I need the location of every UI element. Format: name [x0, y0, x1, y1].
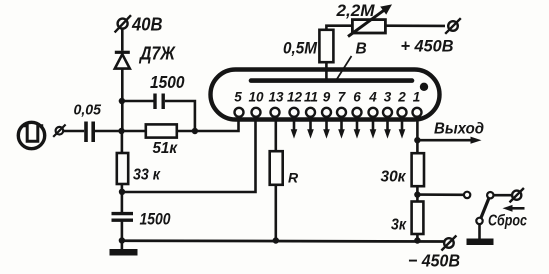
svg-text:51к: 51к — [153, 140, 178, 157]
wire 0,5M to anode — [325, 62, 328, 80]
capacitor C1 0,05 — [86, 122, 93, 143]
pin number labels — [234, 90, 420, 105]
cathode arrow pin 9 — [323, 117, 330, 139]
wire C1 to node A — [94, 130, 121, 133]
svg-text:30к: 30к — [381, 168, 407, 185]
wire node B to C2 — [122, 100, 154, 103]
svg-text:1500: 1500 — [140, 210, 171, 229]
wire input to C1 — [64, 130, 84, 133]
pin 7 — [337, 108, 346, 117]
svg-text:R: R — [288, 170, 299, 186]
wire 51k to node C — [177, 130, 195, 133]
svg-text:2,2М: 2,2М — [335, 1, 375, 20]
resistor R — [270, 151, 283, 185]
wire switch to terminal — [494, 194, 512, 197]
svg-text:В: В — [356, 41, 367, 58]
node D junction — [119, 189, 125, 195]
cathode arrow pin 11 — [307, 117, 314, 139]
resistor 30k — [412, 153, 424, 186]
svg-text:6: 6 — [353, 90, 361, 105]
pin 1 — [413, 108, 422, 117]
resistor 0,5M — [319, 30, 333, 62]
pin 9 — [322, 108, 331, 117]
diode VD1 D7Zh — [115, 52, 130, 68]
cathode arrow pin 7 — [338, 117, 345, 139]
anode bar — [251, 78, 412, 83]
cathode arrow pin 6 — [354, 117, 361, 139]
wire terminal to diode — [121, 28, 124, 51]
capacitor C2 1500 — [155, 94, 163, 110]
node F junction — [273, 237, 279, 243]
switch Sbros pivot circle — [487, 192, 493, 198]
wire node D to pin 10 — [122, 116, 256, 193]
cathode arrow pin 12 — [291, 117, 298, 139]
ground — [110, 241, 138, 253]
terminal input — [53, 125, 65, 137]
terminal +450V — [445, 18, 461, 34]
output arrow — [417, 137, 481, 144]
terminal Sbros — [510, 188, 524, 202]
svg-text:40В: 40В — [131, 14, 162, 35]
svg-text:Выход: Выход — [434, 121, 484, 138]
svg-text:0,5М: 0,5М — [283, 39, 318, 58]
svg-text:1: 1 — [413, 90, 421, 105]
pin 5 — [235, 108, 244, 117]
svg-text:+ 450В: + 450В — [401, 37, 454, 56]
switch ground stub — [478, 224, 481, 239]
resistor 3k — [412, 202, 424, 235]
cathode arrow pin 3 — [384, 117, 391, 139]
node E junction — [119, 237, 125, 243]
wire 30k to 3k — [416, 186, 419, 201]
svg-text:3к: 3к — [391, 216, 407, 233]
wire 0,5M top — [326, 26, 352, 30]
dekatron tube V1 envelope — [211, 70, 440, 120]
wire R to bus — [274, 185, 277, 241]
terminal 40V — [115, 15, 131, 32]
wire node A to R 51k — [122, 130, 146, 133]
node B junction — [119, 98, 125, 104]
wire diode to node A — [121, 69, 124, 131]
svg-text:Сброс: Сброс — [488, 213, 527, 230]
pin 10 — [252, 108, 261, 117]
pin 12 — [290, 108, 299, 117]
svg-text:− 450В: − 450В — [408, 251, 460, 271]
svg-text:10: 10 — [248, 90, 264, 105]
svg-text:12: 12 — [287, 90, 303, 105]
switch contact circle — [464, 192, 470, 198]
svg-text:2: 2 — [397, 90, 406, 105]
ground switch — [467, 239, 494, 246]
pin 11 — [306, 108, 315, 117]
switch bottom circle — [476, 218, 482, 224]
svg-text:5: 5 — [234, 90, 242, 105]
cathode arrow pin 2 — [399, 117, 406, 139]
svg-text:4: 4 — [368, 90, 377, 105]
variable resistor 2,2M — [348, 4, 392, 36]
cathode dot — [420, 83, 428, 91]
wire C3 to node E — [121, 220, 124, 240]
cathode arrow pin 4 — [370, 117, 377, 139]
wire node A to 33k — [121, 131, 124, 153]
pin 4 — [369, 108, 378, 117]
node A junction — [118, 128, 124, 134]
pin 2 — [398, 108, 407, 117]
wire pin 1 to 30k — [416, 116, 419, 154]
svg-text:9: 9 — [323, 90, 331, 105]
pin 3 — [383, 108, 392, 117]
resistor 33k — [117, 153, 128, 184]
capacitor C3 1500 — [112, 214, 134, 221]
node C junction — [192, 128, 198, 134]
svg-text:1500: 1500 — [150, 72, 185, 92]
wire node H to switch contact — [417, 193, 463, 196]
wire 33k to node D — [121, 184, 124, 212]
wire 2,2M to terminal — [385, 24, 445, 27]
wire pin 13 to R — [274, 116, 277, 152]
pin 6 — [353, 108, 362, 117]
bus wire -450V — [122, 239, 444, 243]
svg-text:0,05: 0,05 — [74, 102, 102, 119]
resistor 51k — [146, 124, 177, 137]
node I junction — [414, 237, 420, 243]
anode label B leader — [336, 56, 352, 81]
wire 3k to bus — [416, 234, 419, 241]
svg-text:13: 13 — [268, 90, 284, 105]
reset arrow — [503, 205, 525, 212]
terminal -450V — [441, 236, 456, 251]
node H junction — [414, 191, 420, 197]
switch lever — [481, 198, 489, 218]
svg-text:33 к: 33 к — [133, 166, 161, 183]
pulse generator G1 — [18, 122, 44, 148]
node G junction — [414, 137, 420, 143]
pin 13 — [271, 108, 280, 117]
wire node C to pin 5 — [195, 116, 239, 132]
wire C2 to node C — [165, 101, 195, 131]
svg-text:3: 3 — [384, 90, 392, 105]
svg-text:Д7Ж: Д7Ж — [138, 43, 175, 64]
svg-text:11: 11 — [304, 90, 318, 105]
